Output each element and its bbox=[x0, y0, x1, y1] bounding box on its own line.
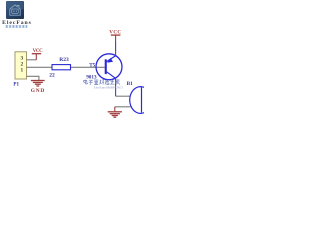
svg-text:B1: B1 bbox=[127, 81, 133, 87]
svg-text:GND: GND bbox=[31, 88, 45, 94]
svg-text:1: 1 bbox=[21, 68, 24, 74]
svg-text:VCC: VCC bbox=[109, 30, 121, 35]
svg-text:22: 22 bbox=[49, 73, 55, 79]
svg-text:ElecFans/MtBBS.NET: ElecFans/MtBBS.NET bbox=[94, 86, 123, 90]
svg-text:3: 3 bbox=[21, 55, 24, 61]
svg-text:R23: R23 bbox=[59, 57, 69, 63]
svg-text:P1: P1 bbox=[13, 81, 19, 87]
svg-text:T5: T5 bbox=[89, 63, 95, 69]
svg-text:VCC: VCC bbox=[33, 49, 44, 54]
svg-text:2: 2 bbox=[21, 62, 24, 68]
